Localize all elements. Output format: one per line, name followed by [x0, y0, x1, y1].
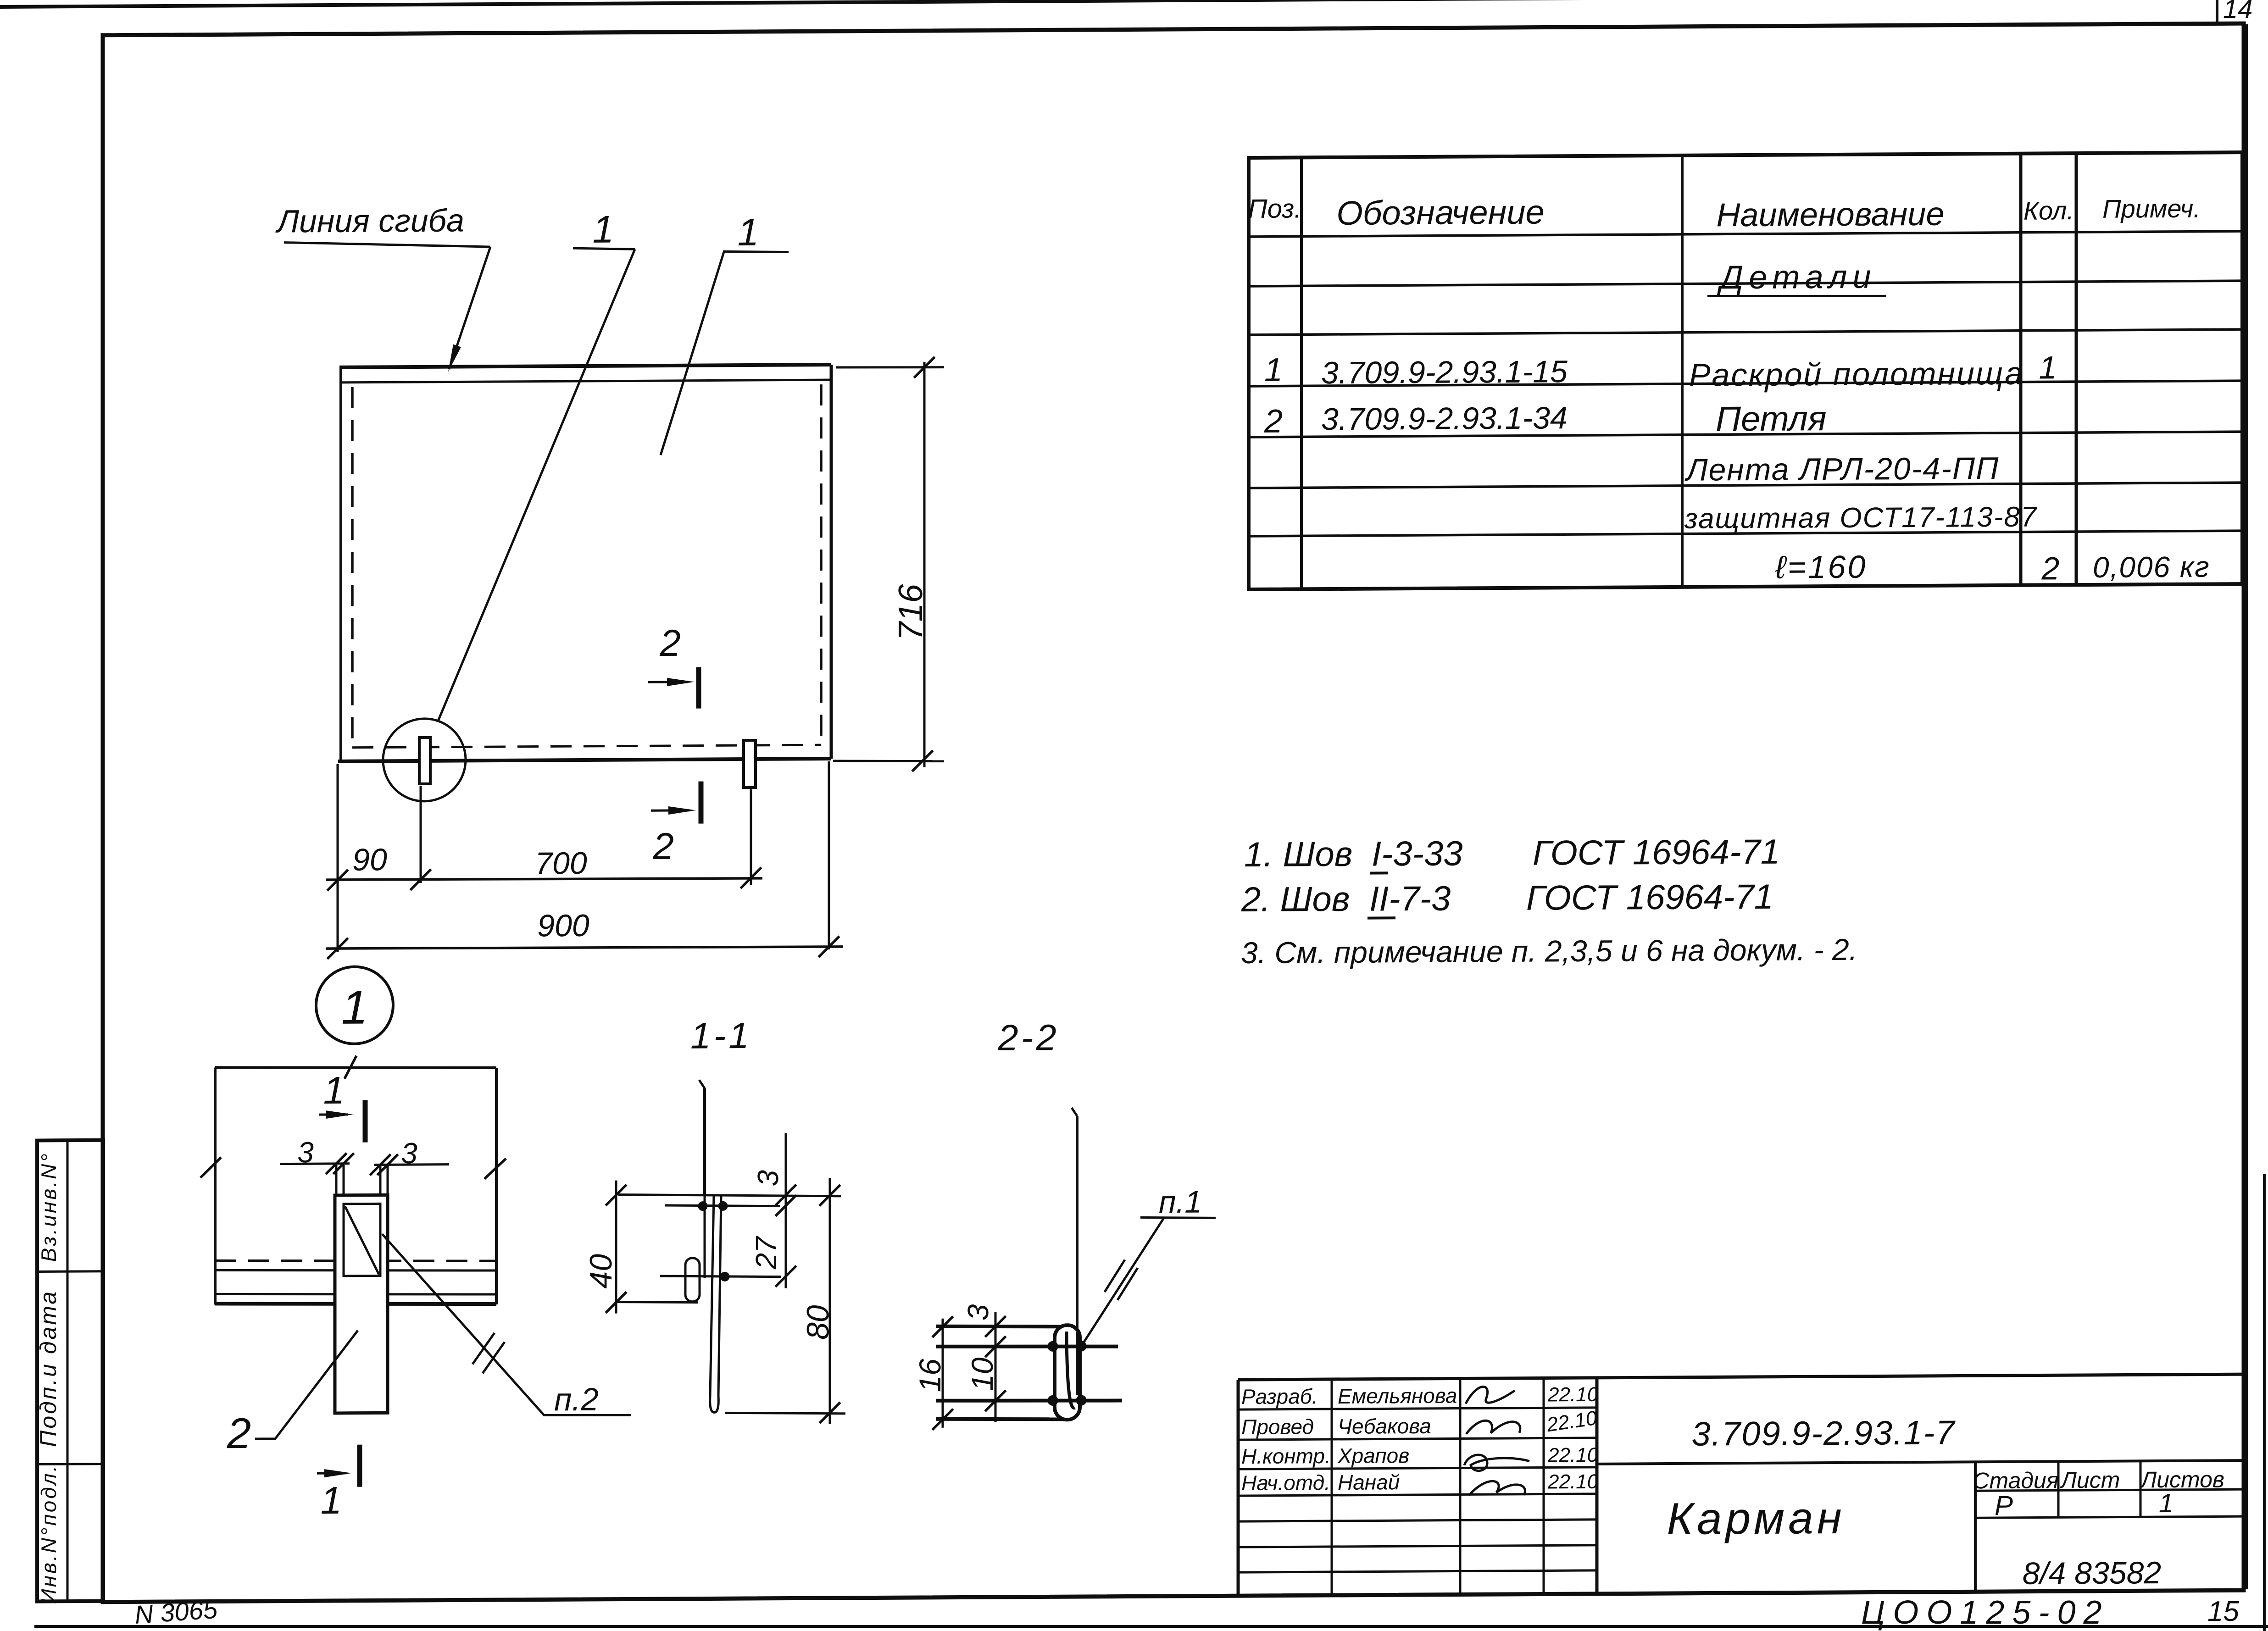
svg-text:Обозначение: Обозначение: [1336, 193, 1544, 232]
svg-text:Подп.и дата: Подп.и дата: [35, 1290, 61, 1447]
svg-text:3: 3: [297, 1136, 314, 1169]
svg-text:2: 2: [659, 622, 681, 664]
svg-text:Вз.инв.N°: Вз.инв.N°: [37, 1152, 61, 1262]
svg-text:Емельянова: Емельянова: [1338, 1384, 1457, 1408]
svg-text:1: 1: [2159, 1488, 2173, 1518]
svg-text:ℓ=160: ℓ=160: [1775, 549, 1867, 585]
svg-text:22.10: 22.10: [1545, 1407, 1599, 1437]
svg-text:3.709.9-2.93.1-7: 3.709.9-2.93.1-7: [1691, 1414, 1956, 1453]
svg-text:1: 1: [738, 211, 759, 254]
svg-text:3. См. примечание п. 2,3,5 и 6: 3. См. примечание п. 2,3,5 и 6 на докум.…: [1241, 932, 1857, 970]
svg-text:Инв.N°подл.: Инв.N°подл.: [37, 1464, 61, 1604]
svg-text:Линия сгиба: Линия сгиба: [275, 202, 464, 239]
svg-text:2: 2: [652, 826, 674, 867]
svg-text:716: 716: [891, 583, 929, 641]
svg-text:Наименование: Наименование: [1717, 196, 1945, 234]
svg-text:Примеч.: Примеч.: [2102, 194, 2201, 223]
svg-text:Нанай: Нанай: [1338, 1470, 1400, 1494]
svg-text:40: 40: [584, 1254, 618, 1289]
svg-text:80: 80: [800, 1305, 835, 1340]
svg-text:2: 2: [1264, 403, 1283, 440]
svg-text:1: 1: [341, 981, 368, 1034]
svg-text:3: 3: [401, 1137, 417, 1170]
svg-text:I-3-33: I-3-33: [1372, 834, 1463, 873]
svg-text:защитная ОСТ17-113-87: защитная ОСТ17-113-87: [1684, 501, 2038, 535]
svg-text:3: 3: [962, 1304, 995, 1320]
svg-text:Раскрой полотнища: Раскрой полотнища: [1689, 355, 2024, 393]
svg-text:Р: Р: [1995, 1490, 2013, 1521]
svg-text:п.1: п.1: [1159, 1185, 1202, 1220]
svg-text:Храпов: Храпов: [1337, 1443, 1409, 1468]
svg-text:Петля: Петля: [1716, 399, 1827, 438]
svg-text:2: 2: [227, 1409, 251, 1457]
svg-text:2-2: 2-2: [997, 1017, 1059, 1058]
svg-text:1: 1: [593, 208, 614, 251]
svg-text:ГОСТ 16964-71: ГОСТ 16964-71: [1533, 832, 1780, 873]
svg-text:Н.контр.: Н.контр.: [1241, 1444, 1331, 1468]
svg-text:Карман: Карман: [1667, 1492, 1845, 1544]
svg-text:1: 1: [2039, 349, 2057, 385]
svg-text:27: 27: [750, 1236, 783, 1270]
svg-text:8/4 83582: 8/4 83582: [2023, 1555, 2162, 1591]
svg-text:16: 16: [913, 1359, 947, 1392]
svg-text:1: 1: [321, 1479, 342, 1522]
svg-text:II-7-3: II-7-3: [1369, 879, 1451, 919]
svg-text:700: 700: [535, 846, 587, 881]
svg-text:3: 3: [751, 1170, 784, 1186]
svg-text:N 3065: N 3065: [133, 1594, 218, 1629]
svg-text:ГОСТ 16964-71: ГОСТ 16964-71: [1526, 877, 1773, 918]
svg-text:0,006 кг: 0,006 кг: [2093, 550, 2210, 584]
svg-text:Провед: Провед: [1241, 1415, 1314, 1439]
svg-text:Поз.: Поз.: [1248, 194, 1302, 224]
svg-text:Лента ЛРЛ-20-4-ПП: Лента ЛРЛ-20-4-ПП: [1684, 451, 1999, 488]
svg-text:Разраб.: Разраб.: [1241, 1384, 1317, 1409]
svg-text:Лист: Лист: [2060, 1467, 2120, 1493]
svg-text:ЦОО125-02: ЦОО125-02: [1861, 1594, 2110, 1631]
svg-text:1: 1: [323, 1069, 345, 1112]
svg-text:Нач.отд.: Нач.отд.: [1241, 1470, 1330, 1495]
svg-text:3.709.9-2.93.1-15: 3.709.9-2.93.1-15: [1321, 354, 1568, 390]
svg-text:1: 1: [1264, 352, 1283, 388]
svg-text:Стадия: Стадия: [1973, 1467, 2058, 1493]
svg-text:Детали: Детали: [1717, 259, 1877, 296]
svg-text:90: 90: [352, 842, 387, 877]
svg-text:3.709.9-2.93.1-34: 3.709.9-2.93.1-34: [1321, 400, 1568, 437]
svg-text:1-1: 1-1: [690, 1015, 752, 1056]
svg-text:1. Шов: 1. Шов: [1244, 835, 1352, 874]
svg-text:10: 10: [965, 1357, 999, 1391]
svg-text:2. Шов: 2. Шов: [1241, 880, 1350, 919]
svg-text:22.10: 22.10: [1547, 1383, 1599, 1406]
svg-text:2: 2: [2041, 550, 2060, 586]
svg-text:22.10: 22.10: [1547, 1444, 1599, 1467]
svg-text:15: 15: [2207, 1596, 2239, 1627]
svg-text:п.2: п.2: [554, 1381, 599, 1418]
svg-text:Чебакова: Чебакова: [1338, 1414, 1431, 1438]
svg-text:900: 900: [537, 908, 589, 943]
svg-text:Листов: Листов: [2140, 1466, 2224, 1492]
svg-text:Кол.: Кол.: [2023, 196, 2074, 225]
svg-text:14: 14: [2223, 0, 2253, 24]
svg-text:22.10: 22.10: [1547, 1470, 1599, 1493]
